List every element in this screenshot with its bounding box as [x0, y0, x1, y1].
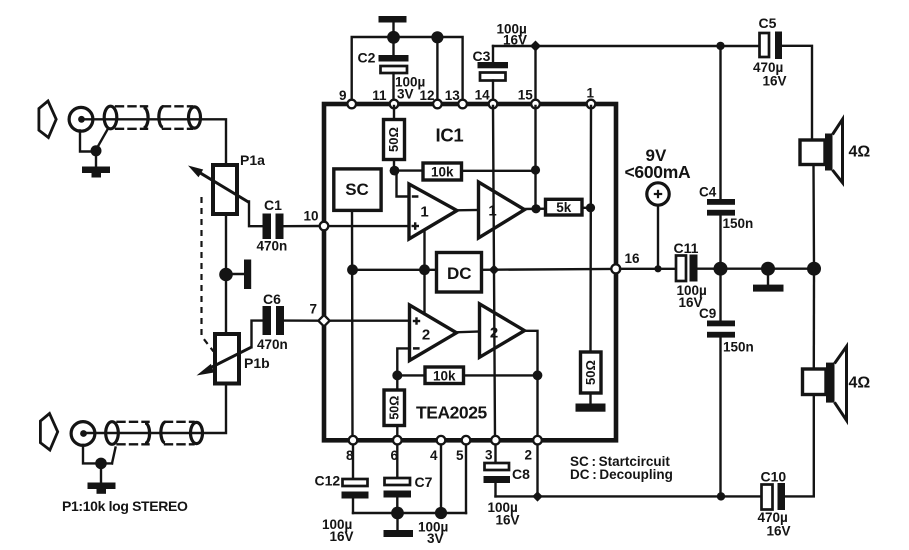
wire rail to LS2: [813, 269, 816, 369]
potentiometer P1a: [188, 165, 249, 214]
pin 16: [611, 251, 640, 273]
resistor 50Ω (pin 1 bias): [581, 352, 602, 393]
loudspeaker LS1: [800, 119, 843, 182]
potentiometer P1b: [197, 334, 252, 384]
pin 9: [339, 88, 356, 108]
capacitor C6: [263, 306, 285, 335]
junction 5k / pin 1 line: [586, 203, 595, 212]
wire pin 16 out: [620, 268, 676, 270]
junction SC column: [347, 264, 358, 275]
svg-text:C5: C5: [759, 15, 777, 31]
P1b label: [244, 355, 270, 371]
junction pin 15 rail: [530, 41, 541, 52]
wire A2 out to B2: [456, 330, 480, 333]
junction A2 inverting node: [392, 370, 402, 380]
pin 14: [475, 88, 498, 109]
junction B1 out / pin15 line: [531, 204, 540, 213]
wire SC to pin 8: [351, 210, 354, 439]
junction shield J1: [91, 145, 102, 156]
wire top rail pins 9-13: [352, 37, 463, 102]
op-amp A2: [410, 305, 457, 361]
svg-text:50Ω: 50Ω: [583, 360, 598, 385]
buffer B1: [479, 182, 525, 238]
svg-text:150n: 150n: [723, 216, 754, 231]
junction pot common: [219, 268, 233, 282]
resistor 10k (ch2 feedback): [397, 367, 537, 384]
C10 value 470µ 16V: [758, 510, 791, 539]
capacitor C7: [384, 478, 412, 513]
svg-text:15: 15: [518, 88, 534, 103]
svg-text:16V: 16V: [763, 74, 787, 89]
ground (input 1): [82, 151, 110, 178]
svg-text:2: 2: [525, 448, 533, 463]
svg-text:16V: 16V: [767, 524, 791, 539]
wire input 1 to P1a: [84, 119, 226, 165]
C4 value 150n: [723, 216, 754, 231]
resistor 5k: [546, 199, 583, 215]
ground (bottom): [384, 513, 414, 537]
svg-text:DC: DC: [447, 264, 472, 283]
svg-text:1: 1: [587, 86, 595, 101]
ground (input 2): [88, 463, 116, 493]
wire LS2 to C10: [785, 395, 814, 497]
C2 value 100µ 3V: [395, 75, 425, 102]
resistor 50Ω (pin 11): [384, 106, 405, 170]
C2 label: [358, 50, 376, 66]
svg-text:C11: C11: [674, 240, 699, 256]
resistor 50Ω (pin 6): [384, 375, 405, 439]
C8 value 100µ 16V: [488, 500, 520, 528]
svg-text:14: 14: [475, 88, 491, 103]
LS2 label 4Ω: [849, 375, 871, 392]
svg-text:C3: C3: [473, 48, 491, 64]
TEA2025 label: [416, 403, 487, 423]
decoupling rail left: [353, 269, 437, 271]
resistor 10k (ch1 feedback): [395, 163, 536, 180]
wire pin 10 to A1 +: [326, 225, 409, 227]
capacitor C10: [762, 483, 786, 510]
pin 4: [430, 436, 445, 463]
pin 1: [587, 86, 596, 109]
junction 9V rail: [654, 265, 661, 272]
C9 label: [699, 306, 716, 321]
pin 5: [456, 436, 470, 463]
P1a label: [240, 152, 265, 168]
svg-text:3V: 3V: [427, 531, 444, 546]
wire J1 shield: [80, 130, 108, 152]
decoupling rail right to pin 16: [482, 268, 612, 271]
svg-text:P1:10k log STEREO: P1:10k log STEREO: [62, 498, 188, 514]
P1 value label: [62, 498, 188, 514]
C1 value 470n: [257, 239, 288, 254]
wire A1 inverting input: [397, 172, 410, 197]
C8 label: [512, 466, 530, 482]
wire pin 2 down: [536, 445, 538, 497]
svg-text:9: 9: [339, 88, 347, 103]
wire C6 to pin 7: [284, 319, 320, 322]
svg-text:C4: C4: [699, 185, 717, 200]
capacitor C1: [263, 214, 284, 240]
wire LS1 to rail: [812, 165, 815, 269]
pin 13: [445, 88, 467, 108]
junction 10k / B2 out column: [533, 370, 543, 380]
svg-text:5: 5: [456, 448, 464, 463]
pin 6: [391, 436, 402, 463]
chassis ground (pot common): [230, 260, 251, 290]
svg-text:C10: C10: [761, 469, 787, 485]
junction A1 inverting node: [390, 166, 400, 176]
svg-text:50Ω: 50Ω: [386, 127, 401, 152]
svg-text:C9: C9: [699, 306, 716, 321]
junction bias tap: [419, 264, 430, 275]
svg-text:10k: 10k: [431, 165, 454, 180]
pin 15: [518, 88, 540, 109]
capacitor C4: [707, 46, 735, 269]
svg-text:12: 12: [420, 88, 435, 103]
C11 label: [674, 240, 699, 256]
junction pin 12 rail: [431, 31, 443, 43]
input arrow (channel 2): [40, 414, 57, 451]
svg-text:C7: C7: [415, 474, 433, 490]
svg-text:<600mA: <600mA: [625, 162, 691, 182]
power source 9V: [647, 183, 669, 269]
svg-text:10: 10: [304, 209, 319, 224]
C12 label: [315, 473, 341, 489]
input arrow (channel 1): [39, 101, 56, 138]
IC1 label: [436, 125, 464, 146]
IC1 body TEA2025: [324, 104, 616, 440]
C7 label: [415, 474, 433, 490]
wire pin 3 to C8: [494, 445, 496, 464]
junction C7 ground: [391, 507, 404, 520]
svg-text:4Ω: 4Ω: [849, 375, 871, 392]
svg-text:C2: C2: [358, 50, 376, 66]
pin 10: [304, 209, 329, 231]
pin 7: [310, 302, 330, 327]
svg-text:2: 2: [490, 325, 498, 342]
shielded cable (channel 1): [104, 106, 200, 129]
wire pin 12 drop: [436, 37, 438, 102]
wire pin 15 up: [534, 46, 536, 102]
capacitor C5: [760, 32, 813, 141]
svg-text:13: 13: [445, 88, 461, 103]
C5 value 470µ 16V: [753, 60, 787, 89]
capacitor C11: [676, 255, 714, 282]
svg-text:1: 1: [420, 204, 428, 221]
svg-text:11: 11: [372, 88, 387, 103]
legend SC/DC: [570, 454, 673, 482]
svg-text:DC : Decoupling: DC : Decoupling: [570, 467, 673, 482]
svg-text:P1b: P1b: [244, 355, 270, 371]
wire P1a wiper to C1: [249, 202, 263, 227]
svg-text:IC1: IC1: [436, 125, 464, 146]
svg-text:150n: 150n: [723, 340, 754, 355]
svg-text:10k: 10k: [433, 369, 456, 384]
wire pin 14 column: [493, 106, 495, 439]
wire C1 to pin 10: [284, 225, 320, 228]
junction C4/C9 column: [714, 262, 728, 276]
junction 10k / pin15 line: [531, 165, 540, 174]
loudspeaker LS2: [803, 347, 847, 421]
wire pin 4: [440, 445, 442, 514]
svg-text:C6: C6: [263, 291, 281, 307]
wire A2 inverting input: [397, 348, 409, 373]
ground (internal bias): [576, 393, 606, 412]
wire A1 out to B1: [456, 209, 479, 212]
svg-text:50Ω: 50Ω: [387, 396, 401, 420]
capacitor C2: [379, 37, 409, 102]
junction C4 top: [716, 42, 724, 50]
signal ground rail: [496, 495, 762, 497]
wire B1 output: [525, 207, 546, 210]
ganged coupling (dashed): [202, 197, 214, 352]
capacitor C3: [478, 46, 509, 102]
box SC (start circuit): [334, 169, 381, 211]
wire pin 5: [465, 445, 467, 514]
C7 value 100µ 3V: [418, 520, 448, 547]
junction speaker column: [807, 262, 821, 276]
svg-text:470n: 470n: [257, 337, 288, 352]
wire pin 8 to C12: [352, 445, 354, 480]
svg-text:C1: C1: [264, 197, 282, 213]
RCA jack J2: [71, 422, 95, 446]
box DC (decoupling): [437, 253, 482, 293]
svg-text:3V: 3V: [397, 87, 414, 102]
wire pin 7 to A2 +: [326, 320, 410, 322]
wire P1a bottom to P1b top: [225, 214, 227, 334]
pin 8: [346, 436, 357, 463]
C6 value 470n: [257, 337, 288, 352]
capacitor C9: [707, 269, 735, 497]
svg-text:5k: 5k: [556, 200, 572, 215]
svg-text:470n: 470n: [257, 239, 288, 254]
svg-text:C8: C8: [512, 466, 530, 482]
junction C9 rail: [717, 492, 725, 500]
svg-text:4Ω: 4Ω: [849, 144, 871, 161]
C5 label: [759, 15, 777, 31]
supply rail mid: [714, 268, 814, 270]
C9 value 150n: [723, 340, 754, 355]
svg-text:7: 7: [310, 302, 318, 317]
C4 label: [699, 185, 717, 200]
shielded cable (channel 2): [106, 422, 203, 445]
wire pin 1 column: [589, 106, 592, 352]
svg-text:C12: C12: [315, 473, 341, 489]
wire 5k to pin 1 line: [582, 207, 591, 209]
pin 12: [420, 88, 442, 108]
LS1 label 4Ω: [849, 144, 871, 161]
svg-text:16V: 16V: [496, 513, 520, 528]
junction pin 2 rail: [532, 491, 542, 501]
ground rail bottom: [353, 512, 466, 514]
svg-text:4: 4: [430, 448, 438, 463]
capacitor C12: [342, 479, 369, 513]
pin 2: [525, 436, 542, 463]
C6 label: [263, 291, 281, 307]
wire bias tap A1: [423, 230, 425, 270]
svg-text:3: 3: [485, 448, 493, 463]
wire pin 15 internal: [534, 106, 536, 209]
C3 label: [473, 48, 491, 64]
svg-text:P1a: P1a: [240, 152, 265, 168]
wire B2 output to pin 2: [525, 331, 538, 439]
wire pin 6 to C7: [396, 445, 398, 479]
wire bias tap A2: [423, 270, 425, 314]
C1 label: [264, 197, 282, 213]
9V label: [625, 146, 691, 182]
buffer B2: [480, 304, 525, 357]
wire input 2 to P1b: [86, 384, 226, 433]
junction mid ground: [761, 262, 775, 276]
pin 11: [372, 88, 398, 108]
wire P1b wiper to C6: [252, 321, 263, 348]
ground (output mid): [753, 269, 784, 292]
junction shield J2: [95, 458, 107, 470]
pin 3: [485, 436, 500, 463]
wire J2 shield: [83, 445, 116, 463]
ground (C2): [379, 16, 407, 32]
C12 value 100µ 16V: [322, 517, 354, 544]
svg-text:16V: 16V: [330, 529, 354, 544]
svg-text:16: 16: [625, 251, 641, 266]
svg-text:SC: SC: [345, 180, 369, 199]
junction C2 top: [387, 31, 400, 44]
junction pin 14 column: [489, 265, 499, 275]
svg-text:TEA2025: TEA2025: [416, 403, 487, 423]
C10 label: [761, 469, 787, 485]
C11 value 100µ 16V: [677, 283, 707, 310]
RCA jack J1: [69, 107, 93, 131]
op-amp A1: [409, 184, 457, 239]
wire V+ rail to C5: [493, 45, 760, 47]
capacitor C8: [484, 463, 511, 496]
svg-text:2: 2: [422, 327, 430, 344]
C3 value 100µ 16V: [497, 22, 528, 48]
junction pin 4: [435, 507, 447, 519]
